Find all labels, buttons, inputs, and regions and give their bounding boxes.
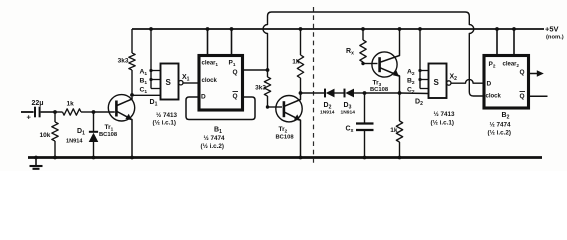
svg-text:Tr2: Tr2 <box>279 126 288 134</box>
svg-text:(nom.): (nom.) <box>546 35 564 41</box>
svg-text:D3: D3 <box>344 102 352 111</box>
wire D2 to D3 <box>335 92 345 94</box>
svg-text:clear2: clear2 <box>503 62 520 69</box>
svg-text:½ 7413: ½ 7413 <box>434 110 456 118</box>
transistor Tr2 <box>276 96 302 122</box>
diode D1 <box>93 112 95 132</box>
wire Q2 output arrow <box>529 73 540 75</box>
node A1 <box>149 69 152 72</box>
resistor Rx <box>362 29 364 40</box>
schmitt gate U1a box <box>161 64 179 100</box>
diode D3 <box>344 89 346 98</box>
svg-text:C1: C1 <box>140 86 148 95</box>
wire Tr3 collector to rail <box>399 29 401 50</box>
node tie2 rail <box>418 27 422 31</box>
node A2 <box>418 69 421 72</box>
node Q1 <box>266 68 270 72</box>
svg-text:S: S <box>166 78 172 87</box>
svg-text:+5V: +5V <box>545 25 559 34</box>
wire A2B2C2 pullup tie <box>419 29 421 89</box>
resistor 1k input <box>63 109 82 115</box>
wire cap to node <box>41 111 56 113</box>
wire input <box>21 111 34 113</box>
node 1k gnd <box>398 156 402 160</box>
svg-text:D2: D2 <box>415 99 423 108</box>
resistor 10k <box>54 112 56 122</box>
wire Cx node to emitter node <box>365 92 400 94</box>
node 1k rail <box>299 27 303 31</box>
svg-text:B2: B2 <box>502 112 510 121</box>
ground rail <box>28 156 542 159</box>
svg-text:clock: clock <box>486 94 502 100</box>
wire X1 to clock1 <box>183 82 199 84</box>
svg-text:X2: X2 <box>450 74 458 83</box>
resistor 3k3 pullup-1 <box>131 29 133 53</box>
transistor Tr3 <box>372 52 397 77</box>
capacitor Cx <box>364 93 366 124</box>
svg-text:B1: B1 <box>140 77 148 86</box>
svg-text:BC108: BC108 <box>99 132 118 138</box>
svg-text:Tr3: Tr3 <box>373 80 382 88</box>
svg-text:BC108: BC108 <box>276 135 295 141</box>
svg-text:+: + <box>27 113 32 122</box>
svg-text:(½ i.c.2): (½ i.c.2) <box>201 142 224 150</box>
svg-text:3k3: 3k3 <box>255 85 266 92</box>
svg-text:1N914: 1N914 <box>320 110 335 116</box>
svg-text:½ 7413: ½ 7413 <box>156 111 178 119</box>
wire stub C2 <box>420 88 429 90</box>
node clear2 rail <box>512 27 516 31</box>
svg-text:A1: A1 <box>140 68 148 77</box>
svg-text:P2: P2 <box>489 61 496 69</box>
node input junction <box>53 110 57 114</box>
node Rx rail <box>361 27 365 31</box>
node base junction <box>92 110 96 114</box>
transistor Tr1 <box>108 95 134 121</box>
node Tr2 collector <box>299 91 303 95</box>
wire Qbar2 output <box>529 95 548 97</box>
wire A1B1C1 pullup tie <box>150 29 152 89</box>
svg-text:BC108: BC108 <box>370 87 389 93</box>
diode D2 <box>324 89 326 98</box>
wire Tr2 collector to D2 <box>301 92 325 94</box>
svg-text:Q: Q <box>233 69 238 76</box>
node Tr2 base corner <box>266 105 269 108</box>
node ground stub <box>34 156 38 160</box>
node P2 rail <box>495 27 499 31</box>
wire stub A2 <box>420 70 429 72</box>
gate U1a output bubble <box>179 81 183 85</box>
wire D1-Qbar1 feedback loop <box>186 97 255 120</box>
node B2 <box>418 78 421 81</box>
svg-text:½ 7474: ½ 7474 <box>204 134 226 142</box>
node Tr3 emitter <box>398 91 402 95</box>
svg-text:1k: 1k <box>390 127 398 134</box>
svg-text:D: D <box>487 81 492 88</box>
gate U1b output bubble <box>447 81 451 85</box>
wire stub A1 <box>151 70 161 72</box>
wire +5V supply rail <box>132 28 544 30</box>
resistor 1k emitter load <box>399 93 401 121</box>
svg-text:P1: P1 <box>229 60 236 68</box>
wire X2 to D input with hop <box>451 79 484 83</box>
svg-text:Tr1: Tr1 <box>105 124 114 132</box>
node Tr1 emitter gnd <box>130 156 134 160</box>
svg-text:S: S <box>434 78 440 87</box>
wire P1 pin <box>231 29 233 56</box>
node P1 rail <box>230 27 234 31</box>
node D1 gnd <box>92 156 96 160</box>
flip-flop B2 box <box>484 56 529 109</box>
dashed section divider <box>313 7 315 164</box>
schmitt gate U1b box <box>429 64 447 99</box>
wire P2 pin <box>496 29 498 56</box>
svg-text:Q: Q <box>233 93 238 100</box>
wire Q1 output <box>243 69 268 71</box>
wire D1 gate input <box>132 94 161 96</box>
ground <box>35 158 37 166</box>
node B1 <box>149 78 152 81</box>
capacitor 22u plates <box>34 107 36 118</box>
node Tr1 collector <box>130 93 134 97</box>
node Cx top <box>363 91 367 95</box>
svg-text:1k: 1k <box>292 59 300 66</box>
wire clear1 pin <box>207 29 209 56</box>
wire Q1-to-clock2 top link <box>263 12 484 96</box>
node Tr2 emitter gnd <box>299 156 303 160</box>
node Cx gnd <box>363 156 367 160</box>
svg-text:clear1: clear1 <box>202 61 219 68</box>
wire stub B1 <box>151 79 161 81</box>
wire emitter node to gate D2 input <box>400 92 429 95</box>
wire clear2 pin <box>513 29 515 56</box>
svg-text:Q: Q <box>520 93 525 100</box>
wire D3 to Cx node <box>354 92 365 94</box>
svg-text:D: D <box>201 94 206 101</box>
node tie1 rail <box>149 27 153 31</box>
svg-text:(½ i.c.1): (½ i.c.1) <box>153 119 176 127</box>
svg-text:½ 7474: ½ 7474 <box>490 121 512 129</box>
svg-text:1k: 1k <box>67 101 75 108</box>
node 10k gnd <box>53 156 57 160</box>
svg-text:22μ: 22μ <box>32 100 44 107</box>
svg-text:D2: D2 <box>324 102 332 111</box>
svg-text:3k3: 3k3 <box>118 58 129 65</box>
svg-text:B2: B2 <box>407 77 415 86</box>
svg-text:Q: Q <box>520 69 525 76</box>
svg-text:A2: A2 <box>407 68 415 77</box>
node clear1 rail <box>206 27 210 31</box>
wire stub C1 <box>151 88 161 90</box>
svg-text:clock: clock <box>202 78 218 84</box>
svg-text:1N914: 1N914 <box>66 139 83 145</box>
svg-text:D1: D1 <box>77 128 85 137</box>
svg-text:1N914: 1N914 <box>341 110 356 116</box>
svg-text:10k: 10k <box>40 132 51 139</box>
svg-text:D1: D1 <box>150 99 158 108</box>
node Tr3 collector rail <box>398 27 402 31</box>
svg-text:(½ i.c.2): (½ i.c.2) <box>488 129 511 137</box>
resistor 3k3 second <box>267 70 269 77</box>
svg-text:Cx: Cx <box>346 126 354 135</box>
node Rx base corner <box>361 62 364 65</box>
svg-text:(½ i.c.1): (½ i.c.1) <box>431 119 454 127</box>
wire stub B2 <box>420 79 429 81</box>
svg-text:Rx: Rx <box>346 48 354 57</box>
resistor 1k pullup Tr2 <box>297 55 303 78</box>
flip-flop B1 box <box>199 56 243 111</box>
svg-text:B1: B1 <box>214 127 222 136</box>
